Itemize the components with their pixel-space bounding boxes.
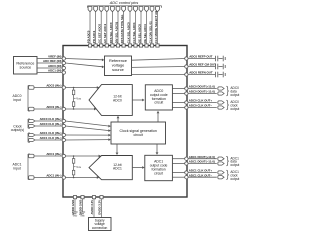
svg-text:DVDD 3.3V: DVDD 3.3V bbox=[98, 200, 102, 215]
svg-text:ADC1 DOUT(−11:0): ADC1 DOUT(−11:0) bbox=[189, 160, 215, 164]
svg-text:OE SEL ADC1: OE SEL ADC1 bbox=[143, 24, 147, 44]
svg-text:VREF (IN): VREF (IN) bbox=[48, 55, 61, 59]
svg-text:ADC0 REFP OUT: ADC0 REFP OUT bbox=[189, 55, 212, 59]
svg-text:ADC0 CLK (IN+): ADC0 CLK (IN+) bbox=[40, 117, 62, 121]
svg-text:CLK SEL ADC0: CLK SEL ADC0 bbox=[126, 22, 130, 43]
svg-text:CLK MODE SELECT AB: CLK MODE SELECT AB bbox=[154, 11, 158, 44]
svg-text:input: input bbox=[13, 166, 20, 170]
svg-text:AVDD 3.3V: AVDD 3.3V bbox=[90, 200, 94, 215]
svg-text:PD ADC1: PD ADC1 bbox=[92, 30, 96, 43]
svg-text:AVDD GND: AVDD GND bbox=[71, 200, 75, 215]
svg-text:GND: GND bbox=[73, 216, 78, 218]
svg-text:CLK SEL ADC1: CLK SEL ADC1 bbox=[132, 22, 136, 43]
svg-text:DFS SEL ADC0: DFS SEL ADC0 bbox=[109, 22, 113, 43]
svg-text:circuit: circuit bbox=[134, 133, 143, 137]
svg-text:ADC1 CLK OUT−: ADC1 CLK OUT− bbox=[189, 173, 213, 177]
svg-text:ADC1 DOUT(+11:0): ADC1 DOUT(+11:0) bbox=[189, 155, 215, 159]
svg-text:CLK DIV SEL 01: CLK DIV SEL 01 bbox=[148, 21, 152, 43]
svg-text:output(s): output(s) bbox=[11, 128, 24, 132]
svg-text:OE SEL ADC0: OE SEL ADC0 bbox=[137, 24, 141, 44]
svg-text:ADC0 CLK (IN−): ADC0 CLK (IN−) bbox=[40, 122, 62, 126]
svg-text:ADC0 DOUT(−11:0): ADC0 DOUT(−11:0) bbox=[189, 90, 215, 94]
svg-text:GC SET ADC0: GC SET ADC0 bbox=[98, 23, 102, 43]
svg-text:ADC0 CLK OUT+: ADC0 CLK OUT+ bbox=[189, 99, 213, 103]
svg-text:ADC1 CLK (IN+): ADC1 CLK (IN+) bbox=[40, 131, 62, 135]
svg-text:ADC REF (IN): ADC REF (IN) bbox=[43, 59, 62, 63]
svg-text:ADC1: ADC1 bbox=[113, 167, 122, 171]
svg-text:ADC0 (IN−): ADC0 (IN−) bbox=[46, 105, 61, 109]
svg-text:ADC control pins: ADC control pins bbox=[109, 1, 139, 5]
svg-text:ADC0 (IN+): ADC0 (IN+) bbox=[46, 84, 61, 88]
svg-text:DVDD GND: DVDD GND bbox=[79, 200, 83, 215]
svg-text:ADC1 (IN−): ADC1 (IN−) bbox=[46, 174, 61, 178]
svg-text:ADC1 (IN+): ADC1 (IN+) bbox=[46, 152, 61, 156]
svg-text:connection: connection bbox=[92, 226, 108, 230]
svg-text:output: output bbox=[230, 93, 239, 97]
svg-text:GC SET ADC1: GC SET ADC1 bbox=[103, 23, 107, 43]
svg-text:ADC0 CLK OUT−: ADC0 CLK OUT− bbox=[189, 104, 213, 108]
svg-text:input: input bbox=[13, 98, 20, 102]
svg-text:ADC0 REFN OUT: ADC0 REFN OUT bbox=[189, 71, 213, 75]
svg-text:DFS DATA TYPE SEL: DFS DATA TYPE SEL bbox=[120, 14, 124, 43]
svg-text:ADC1 (IN): ADC1 (IN) bbox=[48, 69, 62, 73]
svg-text:source: source bbox=[112, 67, 124, 72]
svg-text:ADC0 DOUT(+11:0): ADC0 DOUT(+11:0) bbox=[189, 85, 215, 89]
svg-text:ADC0 REF CM OUT: ADC0 REF CM OUT bbox=[189, 63, 216, 67]
svg-text:ADC1 CLK (IN−): ADC1 CLK (IN−) bbox=[40, 136, 62, 140]
svg-text:PD ADC0: PD ADC0 bbox=[86, 30, 90, 43]
svg-text:output: output bbox=[230, 163, 239, 167]
svg-text:ADC0: ADC0 bbox=[113, 99, 122, 103]
svg-text:ADC1 CLK OUT+: ADC1 CLK OUT+ bbox=[189, 169, 213, 173]
svg-text:output: output bbox=[230, 177, 239, 181]
svg-text:DIV SEL ADC01: DIV SEL ADC01 bbox=[114, 21, 118, 43]
svg-text:output: output bbox=[230, 107, 239, 111]
svg-text:circuit: circuit bbox=[154, 171, 163, 175]
svg-text:source: source bbox=[20, 65, 32, 70]
svg-text:ADC0 (IN): ADC0 (IN) bbox=[48, 64, 62, 68]
svg-text:circuit: circuit bbox=[154, 101, 163, 105]
svg-text:GND: GND bbox=[80, 216, 85, 218]
